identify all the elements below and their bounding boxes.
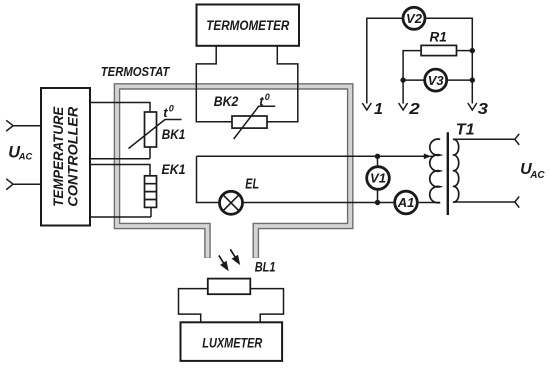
light ray arrow 1 bbox=[219, 255, 224, 263]
heater EK1 bbox=[145, 176, 157, 208]
wire V1 top bbox=[377, 156, 379, 166]
probe arrow 3 bbox=[468, 103, 477, 110]
wire EL loop left bbox=[197, 156, 219, 202]
photodetector BL1 bbox=[208, 279, 251, 295]
junction dot bbox=[400, 77, 405, 82]
voltmeter V2 bbox=[403, 7, 425, 29]
terminal bottom right bbox=[515, 197, 519, 208]
resistor R1 bbox=[421, 45, 456, 55]
svg-text:TERMOMETER: TERMOMETER bbox=[206, 18, 289, 33]
junction dot bbox=[470, 77, 475, 82]
svg-text:t: t bbox=[163, 105, 168, 120]
temperature controller text bbox=[51, 106, 81, 207]
wire termometer yoke left bbox=[196, 46, 232, 122]
wire secondary bottom bbox=[454, 201, 515, 203]
voltmeter V1 bbox=[367, 167, 390, 190]
left input terminal 1 bbox=[6, 120, 13, 131]
svg-text:BL1: BL1 bbox=[255, 260, 276, 275]
left input terminal 2 bbox=[6, 179, 13, 190]
wire V1 bottom bbox=[377, 190, 379, 203]
wire R1 left down to probe 2 bbox=[403, 51, 421, 104]
label t0 BK1 bbox=[163, 104, 174, 120]
svg-text:AC: AC bbox=[18, 152, 33, 162]
svg-text:2: 2 bbox=[408, 101, 420, 118]
luxmeter sensor holder plate bbox=[179, 289, 284, 323]
svg-text:0: 0 bbox=[265, 92, 270, 102]
thermistor BK1 bbox=[145, 112, 157, 147]
svg-text:0: 0 bbox=[169, 104, 174, 114]
wire lamp to A1 bbox=[243, 202, 394, 204]
voltmeter V3 bbox=[425, 69, 447, 91]
U_AC left label bbox=[8, 143, 32, 161]
luxmeter box bbox=[181, 322, 283, 361]
wire bbox=[13, 125, 41, 127]
wire termometer yoke right bbox=[267, 46, 298, 122]
svg-text:BK2: BK2 bbox=[214, 93, 239, 109]
svg-text:V1: V1 bbox=[370, 171, 386, 186]
svg-text:EK1: EK1 bbox=[162, 162, 186, 177]
svg-text:EL: EL bbox=[245, 175, 259, 192]
svg-text:BK1: BK1 bbox=[162, 126, 186, 142]
light ray arrow 2 bbox=[230, 249, 235, 257]
wire BK1 bottom to controller bbox=[90, 147, 150, 159]
lamp EL bbox=[220, 191, 243, 214]
junction dot bbox=[470, 48, 475, 53]
transformer core bbox=[447, 132, 449, 215]
transformer primary winding bbox=[430, 139, 440, 203]
arrow into transformer bbox=[424, 154, 431, 160]
svg-text:AC: AC bbox=[529, 170, 545, 181]
wire V2 left down to probe 1 bbox=[367, 18, 403, 103]
thermistor BK2 bbox=[232, 116, 267, 128]
junction dot bottom bbox=[375, 200, 380, 205]
U_AC right label bbox=[520, 161, 545, 181]
terminal top right bbox=[515, 134, 519, 145]
svg-text:R1: R1 bbox=[430, 30, 447, 45]
probe arrow 2 bbox=[399, 103, 408, 110]
wire controller to EK1 top bbox=[90, 165, 150, 176]
label t0 BK2 bbox=[259, 92, 270, 108]
wire V3 left bbox=[403, 79, 425, 81]
wire V3 right bbox=[447, 79, 473, 81]
wire V2 right down bbox=[426, 18, 473, 103]
svg-text:3: 3 bbox=[478, 101, 488, 118]
svg-text:T1: T1 bbox=[456, 121, 475, 138]
svg-text:TEMPERATURE: TEMPERATURE bbox=[51, 106, 66, 207]
wire EK1 bottom to controller bbox=[90, 207, 151, 217]
svg-text:TERMOSTAT: TERMOSTAT bbox=[101, 64, 170, 79]
svg-text:CONTROLLER: CONTROLLER bbox=[66, 106, 81, 206]
wire R1 right bbox=[457, 50, 473, 52]
svg-text:V3: V3 bbox=[428, 73, 445, 88]
svg-text:1: 1 bbox=[374, 101, 383, 118]
svg-text:A1: A1 bbox=[397, 195, 415, 210]
termometer box bbox=[197, 5, 300, 46]
ammeter A1 bbox=[395, 191, 418, 214]
svg-text:LUXMETER: LUXMETER bbox=[202, 334, 263, 350]
wire bbox=[13, 183, 41, 185]
wire A1 to transformer bbox=[419, 202, 441, 204]
thermostat chamber wall bbox=[117, 86, 350, 258]
wire controller to BK1 top bbox=[90, 103, 150, 113]
wire EL loop top bbox=[197, 155, 426, 157]
junction dot top bbox=[375, 154, 380, 159]
wire secondary top bbox=[454, 138, 515, 140]
svg-text:t: t bbox=[259, 94, 264, 109]
svg-text:V2: V2 bbox=[406, 11, 423, 26]
probe arrow 1 bbox=[362, 103, 371, 110]
temperature controller box bbox=[41, 88, 90, 226]
transformer secondary winding bbox=[453, 139, 459, 202]
